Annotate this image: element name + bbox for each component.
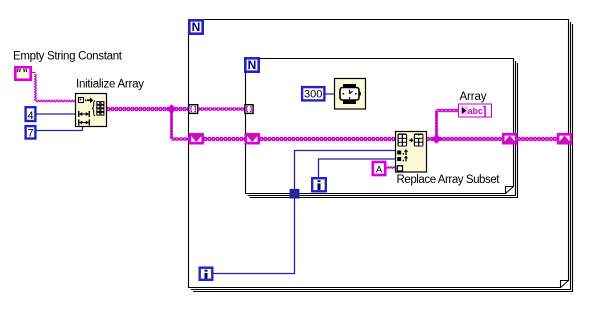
svg-text:Array: Array	[460, 91, 487, 103]
inner right shift register (up triangle)	[503, 134, 516, 143]
outer wall indexing tunnel []	[189, 105, 198, 114]
inner loop count terminal N	[245, 58, 258, 72]
wire outer left SR to inner left SR	[204, 138, 245, 140]
wire empty-string to Initialize Array (string zigzag)	[32, 73, 75, 102]
indicator Array (string array)	[459, 104, 492, 118]
wire branch up to Array indicator	[435, 111, 437, 139]
node Replace Array Subset	[396, 132, 427, 173]
inner left shift register (down triangle)	[246, 134, 259, 143]
wire constant 7 to Initialize Array (blue)	[37, 127, 83, 131]
wire outer i through blue tunnel up to Replace Array Subset index0 (blue)	[295, 151, 396, 191]
wire branch down to outer left shift register	[170, 110, 172, 140]
node Initialize Array	[76, 94, 107, 127]
wire inner right SR to outer right SR	[518, 138, 558, 140]
wire Replace Array Subset to inner right SR	[427, 138, 503, 140]
outer left shift register (down triangle)	[190, 134, 203, 143]
svg-text:A: A	[376, 164, 383, 175]
svg-text:Replace Array Subset: Replace Array Subset	[397, 174, 501, 186]
outer for-loop frame	[189, 20, 573, 292]
blue tunnel on inner loop bottom wall	[290, 189, 299, 198]
wire constant 300 to Wait ms (blue)	[326, 93, 335, 95]
numeric constant 4	[26, 107, 36, 122]
inner loop iteration terminal i	[312, 178, 326, 191]
junction dot on array wire	[167, 104, 177, 114]
outer loop count terminal N	[189, 20, 202, 34]
svg-text:]: ]	[483, 104, 487, 118]
svg-text:300: 300	[304, 89, 322, 101]
junction dot on output array wire	[432, 134, 442, 144]
svg-text:Initialize Array: Initialize Array	[76, 79, 144, 91]
svg-text:7: 7	[27, 128, 33, 140]
wire A constant to Replace Array Subset (string zigzag)	[386, 167, 395, 169]
wire Initialize Array output 2D array to outer tunnel	[107, 108, 189, 110]
inner wall indexing tunnel []	[245, 105, 253, 114]
wire inner left SR to Replace Array Subset	[260, 138, 395, 140]
wire constant 4 to Initialize Array (blue)	[37, 113, 76, 115]
outer right shift register (up triangle)	[558, 134, 571, 143]
svg-text:Empty String Constant: Empty String Constant	[13, 51, 123, 63]
svg-text:N: N	[248, 58, 257, 72]
outer loop iteration terminal i	[200, 268, 213, 280]
string constant A	[373, 162, 385, 175]
empty string constant box	[15, 67, 30, 79]
svg-text:4: 4	[27, 110, 33, 122]
svg-text:abc: abc	[468, 106, 484, 116]
node Wait ms (metronome/watch)	[335, 79, 366, 110]
numeric constant 300	[302, 87, 324, 100]
numeric constant 7	[26, 126, 36, 139]
wire blue tunnel down to outer i terminal (blue)	[214, 197, 295, 274]
wire inner i terminal to Replace Array Subset index1 (blue)	[319, 159, 396, 177]
wire outer tunnel to inner tunnel (1D array)	[197, 108, 245, 110]
svg-text:N: N	[192, 20, 201, 34]
inner for-loop frame	[246, 59, 518, 198]
